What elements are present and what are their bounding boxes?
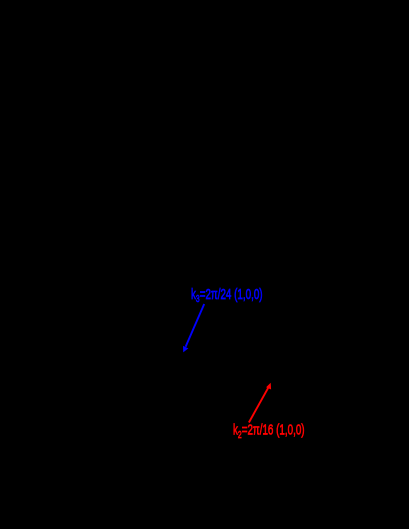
arrowhead blue — [183, 346, 188, 353]
svg-text:k3=2π/24 (1,0,0): k3=2π/24 (1,0,0) — [191, 286, 263, 304]
svg-text:k2=2π/16 (1,0,0): k2=2π/16 (1,0,0) — [233, 422, 305, 440]
arrow k3 (blue wire) — [183, 304, 204, 352]
label k3 (blue) — [191, 286, 263, 304]
arrowhead red — [266, 383, 271, 390]
arrow k2 (red wire) — [249, 383, 271, 423]
label k2 (red) — [233, 422, 305, 440]
